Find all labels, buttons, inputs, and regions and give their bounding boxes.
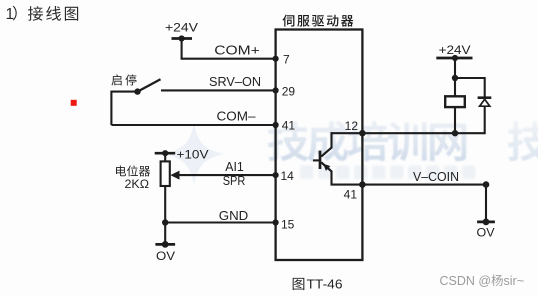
- svg-text:1: 1: [6, 6, 15, 23]
- wire V-COIN (emitter row): [331, 181, 490, 188]
- svg-text:sir~: sir~: [504, 274, 525, 288]
- wire switch to COM- (pin 41): [111, 91, 275, 125]
- junction pot to GND: [162, 219, 168, 225]
- pin 14: [273, 169, 295, 183]
- wire collector row: pin 12 to relay/diode bottoms: [331, 132, 485, 134]
- wire AI1/SPR wiper (pin 14) with arrow: [170, 171, 275, 180]
- svg-text:TT-46: TT-46: [307, 277, 343, 292]
- svg-text:COM+: COM+: [214, 43, 260, 58]
- svg-text:CSDN @: CSDN @: [440, 274, 492, 288]
- wire GND (pin 15): [165, 221, 275, 223]
- pin 41 (left): [273, 119, 296, 133]
- red marker: [71, 100, 77, 106]
- svg-text:SRV–ON: SRV–ON: [209, 74, 261, 89]
- label 电位器 2KΩ: [116, 165, 150, 190]
- power +24V (left): [165, 23, 198, 42]
- pin 12: [345, 119, 366, 136]
- ground OV (right): [477, 185, 495, 240]
- pin 41 (right): [344, 181, 366, 201]
- relay coil K1: [445, 96, 465, 136]
- svg-text:41: 41: [282, 119, 296, 133]
- svg-text:GND: GND: [219, 208, 249, 223]
- switch 启停 (start/stop): [111, 74, 160, 94]
- svg-text:12: 12: [345, 119, 359, 133]
- svg-text:29: 29: [282, 85, 296, 99]
- svg-text:7: 7: [283, 52, 290, 66]
- svg-text:2KΩ: 2KΩ: [125, 179, 150, 191]
- pin 15: [273, 217, 295, 231]
- wire +24V to COM+ (pin 7): [181, 38, 276, 59]
- svg-text:COM–: COM–: [217, 108, 257, 123]
- svg-text:+10V: +10V: [177, 150, 209, 162]
- diode D1 (flyback): [478, 98, 492, 135]
- title 1）接线图: [6, 6, 79, 23]
- transistor Q1 (PNP, in driver): [313, 132, 332, 184]
- potentiometer RP 2KΩ: [161, 153, 170, 222]
- caption 图TT-46: [293, 277, 343, 292]
- power +24V (right): [436, 45, 472, 97]
- svg-text:+24V: +24V: [165, 23, 198, 35]
- servo driver box U1 伺服驱动器: [276, 15, 363, 260]
- svg-text:V–COIN: V–COIN: [413, 170, 459, 184]
- ground OV (left): [155, 223, 175, 263]
- pin 29: [273, 85, 296, 99]
- svg-text:OV: OV: [156, 249, 175, 263]
- power +10V: [155, 150, 209, 162]
- wire SRV-ON (pin 29): [161, 89, 276, 91]
- pin 7: [273, 52, 291, 66]
- junction to diode branch: [452, 75, 485, 98]
- svg-text:SPR: SPR: [223, 174, 246, 188]
- svg-text:OV: OV: [477, 226, 495, 240]
- svg-text:41: 41: [344, 188, 358, 202]
- svg-text:14: 14: [281, 169, 295, 183]
- svg-text:15: 15: [281, 217, 295, 231]
- svg-text:AI1: AI1: [225, 160, 244, 174]
